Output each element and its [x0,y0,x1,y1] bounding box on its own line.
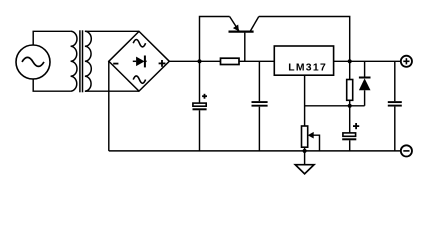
capacitor C1 positive plate [193,103,206,106]
capacitor C3 plus mark [353,123,359,129]
bridge B1 minus mark [113,63,118,65]
transformer T1 secondary winding [85,31,91,91]
wire bottom rail [109,150,401,152]
capacitor C1 bottom lead [199,110,201,151]
capacitor C1 plus mark [202,94,207,99]
node bridge output junction [197,59,201,63]
capacitor C3 positive plate [343,133,356,136]
node output junction [348,59,352,63]
potentiometer VR1 wiper [308,132,320,151]
capacitor C3 bottom lead [349,140,351,151]
bridge B1 plus mark [159,60,166,67]
capacitor C4 lower plate [388,105,402,107]
capacitor C2 top lead [258,61,260,101]
wire V1 bottom to primary [33,79,70,91]
wire U1 output rail [334,60,401,62]
ground [295,151,314,174]
bridge B1 ac mark bottom [133,76,145,83]
resistor R2 feedback [347,61,353,106]
wire bridge output to node [169,60,199,62]
regulator U1 LM317 box [274,46,333,75]
node adjust junction [348,104,352,108]
transistor Q1 emitter lead [230,17,240,32]
capacitor C2 bottom lead [258,107,260,151]
capacitor C2 upper plate [252,101,268,103]
capacitor C4 bottom lead [394,107,396,151]
terminal output positive [401,56,412,67]
transformer T1 primary winding [71,31,77,91]
resistor R1 series [200,58,275,64]
transformer T1 core [80,30,83,92]
diode D1 [359,61,371,106]
wire secondary top to bridge [85,30,139,32]
wire bridge negative down [108,61,110,151]
bridge B1 ac mark top [133,40,145,47]
bridge rectifier B1 diamond [109,31,170,91]
wire secondary bottom to bridge [85,90,139,92]
capacitor C3 negative plate [342,138,356,140]
bridge B1 internal diode [133,56,147,68]
potentiometer VR1 [302,126,308,151]
wire adjust horizontal [305,105,365,107]
wire V1 top to primary [33,31,70,45]
wire node up and top rail left [200,17,230,62]
capacitor C4 upper plate [388,101,402,103]
capacitor C4 top lead [394,61,396,101]
terminal output negative [401,145,412,156]
wire top rail right and down to output node [259,17,350,62]
wire Q1 base down to rail [244,33,246,62]
transistor Q1 collector lead [250,17,259,32]
capacitor C1 top lead [199,61,201,103]
svg-text:LM317: LM317 [288,63,327,74]
transistor Q1 base bar [229,31,254,33]
ac source V1 [16,45,50,79]
capacitor C2 lower plate [252,105,268,107]
capacitor C1 negative plate [193,108,207,110]
wire U1 adjust pin down [304,75,306,126]
node ground junction [303,149,307,153]
capacitor C3 top lead [349,106,351,133]
